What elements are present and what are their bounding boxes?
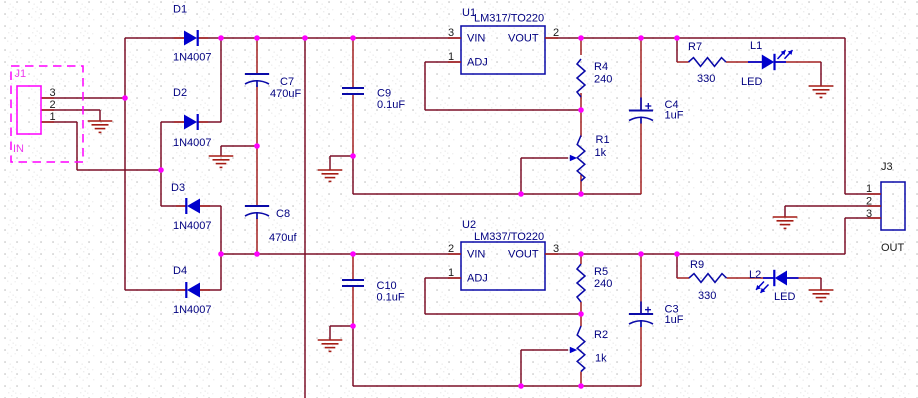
svg-text:OUT: OUT bbox=[881, 242, 905, 254]
svg-text:1: 1 bbox=[448, 267, 454, 279]
svg-text:330: 330 bbox=[698, 290, 716, 302]
svg-text:VIN: VIN bbox=[467, 33, 485, 45]
svg-text:R4: R4 bbox=[594, 61, 608, 73]
svg-text:J1: J1 bbox=[15, 68, 27, 80]
svg-text:470uF: 470uF bbox=[270, 88, 301, 100]
svg-text:C8: C8 bbox=[276, 208, 290, 220]
svg-text:C10: C10 bbox=[377, 280, 397, 292]
svg-text:3: 3 bbox=[50, 87, 56, 99]
svg-text:3: 3 bbox=[448, 27, 454, 39]
svg-text:C7: C7 bbox=[280, 76, 294, 88]
svg-text:240: 240 bbox=[594, 74, 612, 86]
svg-text:470uf: 470uf bbox=[269, 232, 297, 244]
svg-text:1N4007: 1N4007 bbox=[173, 304, 212, 316]
svg-text:LED: LED bbox=[741, 76, 762, 88]
svg-text:1uF: 1uF bbox=[665, 110, 684, 122]
svg-text:D4: D4 bbox=[173, 265, 187, 277]
svg-text:R7: R7 bbox=[688, 41, 702, 53]
svg-text:1N4007: 1N4007 bbox=[173, 137, 212, 149]
svg-text:1k: 1k bbox=[595, 147, 607, 159]
svg-text:LED: LED bbox=[774, 291, 795, 303]
svg-text:3: 3 bbox=[553, 243, 559, 255]
svg-text:L1: L1 bbox=[750, 40, 762, 52]
svg-text:LM337/TO220: LM337/TO220 bbox=[474, 231, 544, 243]
svg-text:L2: L2 bbox=[749, 269, 761, 281]
svg-text:2: 2 bbox=[50, 99, 56, 111]
svg-text:2: 2 bbox=[448, 243, 454, 255]
svg-text:1: 1 bbox=[448, 51, 454, 63]
svg-text:0.1uF: 0.1uF bbox=[377, 292, 405, 304]
svg-text:240: 240 bbox=[594, 278, 612, 290]
svg-text:ADJ: ADJ bbox=[467, 57, 488, 69]
svg-text:330: 330 bbox=[697, 73, 715, 85]
svg-text:R1: R1 bbox=[596, 134, 610, 146]
svg-text:1: 1 bbox=[50, 111, 56, 123]
svg-text:VIN: VIN bbox=[467, 249, 485, 261]
svg-text:1N4007: 1N4007 bbox=[173, 220, 212, 232]
svg-text:3: 3 bbox=[866, 208, 872, 220]
svg-text:IN: IN bbox=[13, 143, 24, 155]
svg-text:LM317/TO220: LM317/TO220 bbox=[474, 13, 544, 25]
svg-text:2: 2 bbox=[553, 27, 559, 39]
svg-text:1N4007: 1N4007 bbox=[173, 52, 212, 64]
svg-text:0.1uF: 0.1uF bbox=[377, 99, 405, 111]
svg-text:1k: 1k bbox=[595, 353, 607, 365]
svg-text:D1: D1 bbox=[173, 4, 187, 16]
svg-text:D3: D3 bbox=[171, 182, 185, 194]
svg-text:J3: J3 bbox=[881, 161, 893, 173]
svg-text:R2: R2 bbox=[594, 329, 608, 341]
svg-text:VOUT: VOUT bbox=[508, 33, 539, 45]
svg-text:R5: R5 bbox=[594, 266, 608, 278]
svg-text:ADJ: ADJ bbox=[467, 273, 488, 285]
svg-text:1: 1 bbox=[866, 183, 872, 195]
svg-text:R9: R9 bbox=[690, 259, 704, 271]
svg-text:VOUT: VOUT bbox=[508, 249, 539, 261]
svg-text:U2: U2 bbox=[462, 219, 476, 231]
svg-text:D2: D2 bbox=[173, 87, 187, 99]
svg-text:2: 2 bbox=[866, 196, 872, 208]
svg-text:1uF: 1uF bbox=[665, 314, 684, 326]
svg-text:C9: C9 bbox=[377, 88, 391, 100]
